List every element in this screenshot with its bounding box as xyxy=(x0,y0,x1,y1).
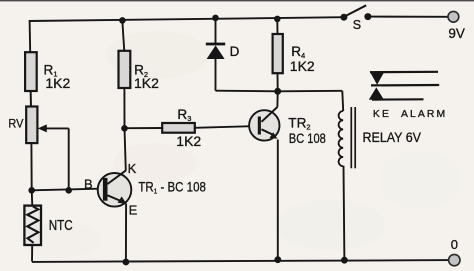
svg-text:E: E xyxy=(129,202,138,217)
node A divider xyxy=(28,187,35,194)
resistor R3 xyxy=(162,107,201,149)
wire bottom rail xyxy=(32,260,449,262)
svg-text:S: S xyxy=(353,18,361,32)
wire R3 to TR2 base xyxy=(195,126,253,128)
svg-text:1K2: 1K2 xyxy=(45,75,70,91)
wire R2 to node xyxy=(123,88,125,129)
wire relay top drop xyxy=(341,91,344,111)
svg-text:0: 0 xyxy=(451,237,458,252)
wire NTC to bottom rail xyxy=(31,245,33,262)
node R4 top xyxy=(274,16,281,23)
svg-text:BC 108: BC 108 xyxy=(289,131,326,146)
wire top rail right xyxy=(368,16,448,18)
terminal 9V xyxy=(448,11,465,41)
wire left drop to R1 xyxy=(29,20,32,53)
wire diode bottom xyxy=(215,59,217,91)
wire node to R3 xyxy=(125,127,163,129)
wire R4 top drop xyxy=(276,19,278,35)
node B wiper xyxy=(65,187,72,194)
svg-text:NTC: NTC xyxy=(49,217,73,234)
thermistor NTC xyxy=(24,206,72,245)
transistor TR2 xyxy=(249,107,326,146)
wire top rail left xyxy=(29,17,344,21)
wire node to relay xyxy=(278,90,343,93)
resistor R2 xyxy=(119,51,160,91)
node main collector xyxy=(274,88,281,95)
wire relay bottom drop xyxy=(343,166,346,260)
wire wiper drop xyxy=(68,128,70,190)
node TR2 emitter bottom xyxy=(274,256,281,263)
relay core xyxy=(351,107,355,168)
svg-text:1K2: 1K2 xyxy=(176,133,201,149)
wire R1 to RV xyxy=(30,90,32,107)
node R2 top xyxy=(119,17,126,24)
wire diode top drop xyxy=(215,18,217,44)
node diode top xyxy=(212,15,219,22)
node TR1 emitter bottom xyxy=(123,259,130,266)
wire RV to node A xyxy=(30,143,32,191)
svg-text:1K2: 1K2 xyxy=(134,75,159,91)
wire base TR1 xyxy=(32,189,104,191)
wire TR2 emitter drop xyxy=(277,140,279,260)
wire wiper horizontal xyxy=(42,127,69,129)
svg-text:KE ALARM: KE ALARM xyxy=(373,109,445,120)
svg-text:B: B xyxy=(84,176,93,191)
svg-text:K: K xyxy=(128,161,137,176)
node R2 bottom xyxy=(121,125,128,132)
relay contact KE xyxy=(369,71,445,120)
resistor R1 xyxy=(25,52,70,91)
switch S xyxy=(340,5,371,32)
paper smudges xyxy=(20,31,460,258)
transistor TR1 xyxy=(84,161,206,218)
wire TR2 collector riser xyxy=(276,91,278,107)
svg-text:RV: RV xyxy=(8,117,24,131)
diode D xyxy=(206,43,240,59)
svg-text:9V: 9V xyxy=(448,26,465,41)
wire R2 top drop xyxy=(122,20,124,51)
svg-text:1K2: 1K2 xyxy=(290,58,315,74)
svg-text:RELAY 6V: RELAY 6V xyxy=(363,130,422,145)
wire node A to NTC xyxy=(31,190,34,206)
wire TR1 collector riser xyxy=(125,128,126,170)
scan top edge xyxy=(0,0,474,1)
wire R4 to node xyxy=(277,73,279,91)
potentiometer RV xyxy=(8,107,46,144)
relay coil xyxy=(339,111,344,166)
wire TR1 emitter drop xyxy=(125,204,127,263)
svg-text:D: D xyxy=(230,44,240,59)
resistor R4 xyxy=(273,34,315,74)
svg-text:TR1 - BC 108: TR1 - BC 108 xyxy=(138,179,206,195)
wire diode to node xyxy=(216,90,278,93)
terminal 0V xyxy=(449,237,460,266)
node relay bottom xyxy=(341,257,348,264)
